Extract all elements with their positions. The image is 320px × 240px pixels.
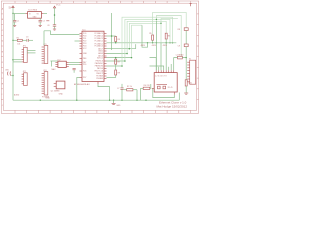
wire VCC down <box>54 8 56 25</box>
frame column ticks bottom <box>15 110 191 113</box>
svg-text:PD6: PD6 <box>83 71 86 73</box>
capacitor C8 <box>73 68 76 72</box>
wire to IC2 <box>50 61 58 67</box>
svg-text:PD5: PD5 <box>83 64 86 66</box>
frame inner border <box>3 3 196 110</box>
IC1 bottom pin <box>97 82 99 85</box>
wire jack jog b <box>150 66 164 70</box>
svg-text:JP2: JP2 <box>23 71 26 73</box>
wire rail to jack <box>178 93 180 101</box>
svg-text:R1: R1 <box>17 37 19 39</box>
resistor R2 <box>124 86 137 100</box>
junction <box>12 13 14 15</box>
wire to JP1 <box>13 59 22 61</box>
svg-text:GND: GND <box>116 105 121 107</box>
wire net y66 <box>107 65 123 67</box>
svg-text:LED: LED <box>5 70 9 72</box>
junctions bundle <box>121 65 123 67</box>
wire vertical feed x112 <box>111 13 113 50</box>
ground mark under C2 <box>46 20 49 22</box>
svg-text:R6: R6 <box>168 36 170 38</box>
bus wire 2 <box>125 19 170 61</box>
wire bottom rail <box>13 99 179 101</box>
crystal Q1 block <box>51 81 65 96</box>
wire IC2 out a <box>69 62 80 64</box>
bus wire 3 <box>127 21 166 53</box>
capacitor C6 <box>47 25 56 29</box>
ethernet jack U2 <box>154 73 177 92</box>
svg-text:JP4: JP4 <box>43 70 46 72</box>
supply VCC arrow P2 <box>53 5 61 8</box>
svg-text:C6: C6 <box>47 25 49 27</box>
bus wire 1 <box>122 17 173 66</box>
title block <box>157 100 188 108</box>
wire net y57 <box>107 57 132 59</box>
wire SCK net <box>107 35 116 37</box>
IC1 left pins <box>80 34 83 78</box>
svg-text:R8: R8 <box>178 29 180 31</box>
svg-text:PB6: PB6 <box>83 58 86 60</box>
wire riser to IC1 pin <box>77 78 80 101</box>
capacitor C2 below regulator right <box>39 18 45 25</box>
resistor R4 <box>141 84 151 100</box>
svg-text:ATMEGA328-AU: ATMEGA328-AU <box>74 83 90 86</box>
frame row ticks right <box>197 14 199 100</box>
frame letter marks <box>2 8 4 107</box>
connector JP3 <box>42 44 48 64</box>
svg-text:RJ 45: RJ 45 <box>168 87 173 89</box>
junction <box>54 14 56 16</box>
svg-text:AVCC2: AVCC2 <box>97 56 103 59</box>
wire R1 C3 net <box>13 39 33 41</box>
svg-text:JP1: JP1 <box>23 46 26 48</box>
wire jack pin stub b <box>168 67 170 70</box>
microcontroller IC1 <box>74 30 104 87</box>
wire ferrite right <box>182 58 186 80</box>
capacitor C3 <box>26 37 29 42</box>
wire bus horizontal mid <box>107 42 177 44</box>
svg-text:VCC: VCC <box>56 5 61 7</box>
wire ferrite left <box>174 58 178 71</box>
svg-text:R7: R7 <box>118 62 120 64</box>
svg-text:C7: C7 <box>117 88 119 90</box>
svg-text:IC3 7805: IC3 7805 <box>28 10 38 12</box>
svg-text:Mat Hodge 15/02/2012: Mat Hodge 15/02/2012 <box>157 104 188 108</box>
svg-text:49R9: 49R9 <box>152 45 156 47</box>
resistor R7 mid column a <box>115 57 120 66</box>
junction <box>12 59 14 61</box>
LED1 <box>5 70 11 76</box>
wire led stub <box>11 75 13 77</box>
frame outer border <box>1 1 198 113</box>
wire R5 to bus <box>152 40 154 43</box>
bus wire upper 2 <box>156 16 181 57</box>
capacitor C1 below regulator left <box>13 14 19 25</box>
wire x142 <box>142 25 148 47</box>
svg-text:1 2 3 4 5 6 7 8: 1 2 3 4 5 6 7 8 <box>155 75 167 77</box>
wire jack pin stub c <box>170 64 172 70</box>
IC1 pin labels <box>83 32 104 80</box>
wire to JP1 lower <box>13 61 22 63</box>
ferrite L2 <box>176 53 184 58</box>
ground under C1 <box>13 25 16 26</box>
wire x135 stub <box>135 44 137 49</box>
wire jack jog a <box>150 58 157 71</box>
junctions on bus <box>115 42 117 44</box>
svg-text:C3: C3 <box>26 37 28 39</box>
capacitor C9 right column <box>178 44 189 47</box>
svg-text:PC2/ADC2: PC2/ADC2 <box>94 40 103 43</box>
resistor R9 mid column b <box>107 66 121 78</box>
bus wire upper 3 <box>161 19 178 24</box>
connector X1 <box>187 58 196 84</box>
resistor R8 right column <box>178 28 189 31</box>
svg-text:R3: R3 <box>118 39 120 41</box>
wire R8 down <box>185 30 187 44</box>
supply 5V arrow P1 <box>9 6 15 10</box>
wire IC1 pin y41 stub <box>75 40 80 42</box>
jack top pins <box>156 70 174 72</box>
svg-text:PD6/AIN: PD6/AIN <box>96 77 104 80</box>
wire IC2 out b <box>69 64 80 66</box>
svg-text:C9: C9 <box>178 45 180 47</box>
junction <box>111 35 113 37</box>
svg-text:10k: 10k <box>17 44 20 46</box>
wire regulator out <box>44 12 47 14</box>
wire left vertical rail <box>12 13 14 75</box>
wire JP1 right b <box>27 52 35 54</box>
wire MISO net <box>107 48 136 50</box>
wire x166 jack riser <box>165 43 167 70</box>
wire to regulator <box>13 12 25 14</box>
wire under jack loop <box>153 88 175 97</box>
junction <box>12 40 14 42</box>
svg-text:R9: R9 <box>118 72 120 74</box>
IC1 right pins <box>104 34 107 79</box>
ground GND2 <box>184 93 188 94</box>
junctions upper <box>156 19 157 20</box>
ground under C6 <box>53 29 56 30</box>
wire net y61 <box>107 60 125 62</box>
svg-text:PC0/ADC0: PC0/ADC0 <box>94 45 103 48</box>
capacitor C10 <box>185 80 192 86</box>
wire C9 down <box>185 47 187 58</box>
resistor R5 <box>149 33 153 40</box>
wire C10 down <box>185 86 187 93</box>
resistor R3 <box>115 36 120 43</box>
wire jack left stub <box>152 87 154 89</box>
op-amp IC2 <box>52 59 69 70</box>
wire JP3 column feed <box>43 31 45 46</box>
ground GND1 <box>112 100 121 107</box>
IC1 bottom wire <box>98 84 110 100</box>
svg-text:49R9: 49R9 <box>163 45 167 47</box>
wire regulator to IC1 upper <box>44 31 80 35</box>
voltage regulator IC3 <box>25 10 43 19</box>
svg-text:IC2: IC2 <box>58 59 61 61</box>
junction <box>40 100 41 101</box>
svg-text:C1: C1 <box>17 21 19 23</box>
capacitor C7 <box>117 84 124 100</box>
junctions rail <box>76 100 77 101</box>
wire x161 jack riser <box>160 43 162 70</box>
bus wire 4 <box>129 23 161 48</box>
wire jack pin stub a <box>158 67 160 70</box>
wire MOSI net <box>107 53 128 55</box>
svg-text:R4 220: R4 220 <box>144 85 150 87</box>
svg-text:L2 BEAD: L2 BEAD <box>176 53 184 56</box>
svg-text:X1: X1 <box>189 58 191 60</box>
svg-text:AGND: AGND <box>14 94 20 97</box>
bus wire 5 <box>132 25 143 57</box>
frame column ticks top <box>15 1 191 3</box>
svg-text:GND: GND <box>59 94 64 96</box>
connector JP4 <box>42 70 50 99</box>
svg-text:Q1 16MHz: Q1 16MHz <box>51 90 60 92</box>
svg-text:J: J <box>2 105 3 107</box>
resistor R1 <box>17 37 23 45</box>
svg-text:5V: 5V <box>9 7 12 10</box>
svg-text:PD7: PD7 <box>83 77 86 79</box>
svg-text:R2 1k: R2 1k <box>127 86 132 88</box>
resistor R6 <box>165 33 170 43</box>
bus wire upper 1 <box>153 12 187 35</box>
junction <box>12 75 14 77</box>
svg-text:R5: R5 <box>149 33 151 35</box>
wire 5V down <box>12 8 14 14</box>
svg-text:49R9: 49R9 <box>141 45 145 47</box>
jack bottom pin <box>173 92 175 95</box>
top right frame mark <box>190 3 192 6</box>
svg-text:GND: GND <box>46 98 51 100</box>
connector JP1 <box>22 46 28 63</box>
wire rail bottom <box>12 76 14 101</box>
connector JP2 <box>22 71 28 86</box>
frame row ticks left <box>1 14 3 100</box>
svg-text:C2: C2 <box>42 21 44 23</box>
ground under C2 <box>39 25 42 26</box>
wire JP1 right a <box>27 49 35 51</box>
wire x156 jack riser <box>155 21 157 70</box>
